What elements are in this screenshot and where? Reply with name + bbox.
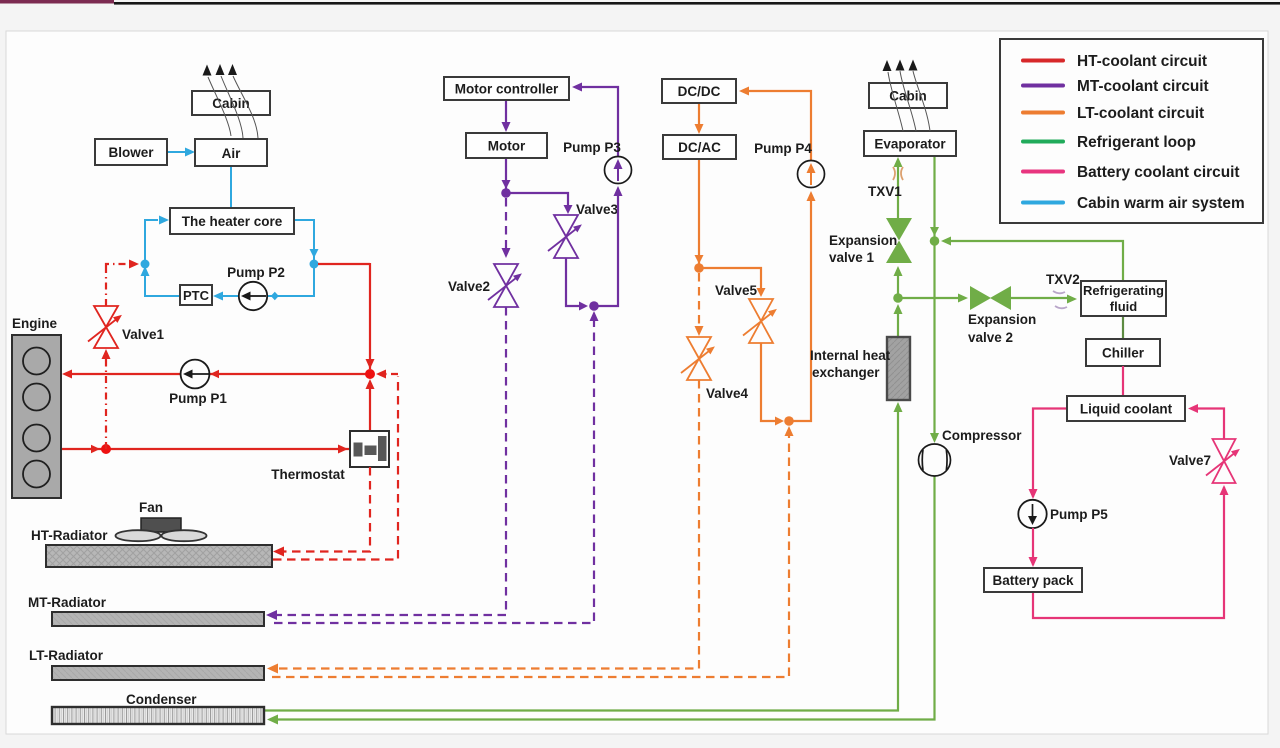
wire junction up to pump P4: [789, 191, 816, 421]
wire dashed MT radiator return to pump junction: [274, 311, 599, 623]
wire pump P2 to PTC (blue arrow): [213, 292, 240, 301]
wire refrigerating fluid to chiller: [1122, 316, 1124, 339]
svg-text:The heater core: The heater core: [182, 214, 283, 229]
thermostat: [271, 431, 389, 482]
svg-text:Liquid coolant: Liquid coolant: [1080, 402, 1173, 417]
wire motor controller to motor: [502, 100, 511, 132]
wire evaporator down to compressor junction: [930, 156, 939, 238]
svg-text:DC/DC: DC/DC: [678, 84, 721, 99]
svg-text:Expansion: Expansion: [968, 312, 1036, 327]
svg-text:Chiller: Chiller: [1102, 346, 1145, 361]
box The heater core: [170, 208, 294, 234]
node green junction at branch: [893, 293, 903, 303]
box Liquid coolant: [1067, 396, 1185, 421]
svg-text:Air: Air: [222, 146, 242, 161]
wire valve3 down to pump junction: [566, 258, 588, 311]
svg-text:Pump P4: Pump P4: [754, 141, 812, 156]
valve V3: [548, 202, 619, 258]
engine block: [12, 335, 61, 498]
TXV2 squiggles: [1053, 291, 1067, 308]
svg-text:Pump P2: Pump P2: [227, 265, 285, 280]
wire DC/DC to DC/AC: [695, 103, 704, 134]
svg-text:Pump P1: Pump P1: [169, 391, 227, 406]
node blue junction left: [141, 260, 150, 269]
wire liquid coolant to pump P5: [1029, 409, 1068, 500]
box Motor: [466, 133, 547, 158]
valve V7: [1169, 439, 1240, 483]
svg-text:Evaporator: Evaporator: [874, 137, 946, 152]
wire DC/AC down to orange junction: [695, 159, 704, 264]
wire Blower to Air (blue arrow): [167, 148, 195, 157]
wire dashed valve2 down to MT radiator: [266, 307, 506, 620]
node red junction on engine lower line: [101, 444, 111, 454]
svg-text:Valve5: Valve5: [715, 283, 758, 298]
wire junction up to pump P3: [594, 186, 623, 306]
svg-text:Valve2: Valve2: [448, 279, 490, 294]
wire refrigerating fluid return to junction: [941, 237, 1123, 282]
svg-text:Engine: Engine: [12, 316, 57, 331]
wire heater core right side down to pump P2: [267, 220, 319, 300]
svg-text:Internal heat: Internal heat: [810, 348, 891, 363]
wire valve5 down to pump P4 junction: [761, 343, 784, 426]
wire compressor to condenser: [267, 476, 935, 725]
wire battery pack to valve7: [1033, 485, 1229, 618]
pump P4: [754, 141, 824, 188]
legend Battery coolant circuit: [1021, 164, 1240, 181]
legend Cabin warm air system: [1021, 195, 1245, 212]
box Chiller: [1086, 339, 1160, 366]
top black line: [114, 2, 1280, 5]
wire dashed junction to valve4: [695, 273, 704, 336]
HT radiator: [46, 545, 272, 567]
legend HT-coolant circuit: [1021, 53, 1207, 70]
LT radiator: [52, 666, 264, 680]
svg-text:Pump P5: Pump P5: [1050, 507, 1108, 522]
box Refrigerating fluid: [1081, 281, 1166, 316]
pump P3: [563, 140, 631, 184]
node purple junction before pump P3: [589, 301, 599, 311]
warm air flow curves through right cabin: [888, 71, 930, 131]
svg-text:HT-Radiator: HT-Radiator: [31, 528, 108, 543]
valve V1: [88, 306, 165, 348]
svg-text:Compressor: Compressor: [942, 428, 1022, 443]
legend LT-coolant circuit: [1021, 105, 1204, 122]
valve V5: [715, 283, 777, 343]
box Battery pack: [984, 568, 1082, 592]
box Motor controller: [444, 77, 569, 100]
svg-text:MT-coolant circuit: MT-coolant circuit: [1077, 78, 1209, 95]
wire heater core left loop (up-flow into heater core): [141, 216, 181, 297]
wire expansion valve1 to evaporator: [894, 157, 903, 218]
expansion valve 2 (filled, horizontal): [970, 286, 1011, 310]
svg-text:exchanger: exchanger: [812, 365, 880, 380]
wire junction down to compressor: [930, 241, 939, 443]
svg-text:Valve7: Valve7: [1169, 453, 1211, 468]
svg-text:Blower: Blower: [108, 145, 154, 160]
valve V4: [681, 337, 749, 401]
wire dashed HT-radiator return to junction riser: [273, 376, 398, 560]
svg-text:TXV2: TXV2: [1046, 272, 1080, 287]
svg-text:valve 1: valve 1: [829, 250, 875, 265]
wire engine supply line y374 with arrow into engine: [62, 370, 370, 379]
node blue junction right: [310, 260, 319, 269]
wire dashed return into junction from right: [376, 370, 398, 379]
wire engine lower line y449 into thermostat: [61, 445, 350, 454]
node purple junction under motor: [501, 188, 511, 198]
node orange junction under DC/AC: [694, 263, 704, 273]
wire thermostat to junction (up arrow): [366, 379, 375, 431]
wire pump P3 to motor controller: [572, 83, 618, 158]
box Evaporator: [864, 131, 956, 156]
valve V2: [448, 264, 522, 307]
condenser: [52, 707, 264, 724]
svg-text:Refrigerating: Refrigerating: [1083, 283, 1164, 298]
wire chiller to liquid coolant: [1122, 366, 1124, 396]
svg-text:Cabin warm air system: Cabin warm air system: [1077, 195, 1245, 212]
wire condenser up through IHE: [265, 402, 903, 711]
wire junction to valve5: [699, 268, 766, 297]
svg-text:Refrigerant loop: Refrigerant loop: [1077, 134, 1196, 151]
wire dashed LT radiator return to pump junction: [272, 426, 794, 677]
legend Refrigerant loop: [1021, 134, 1196, 151]
svg-text:Expansion: Expansion: [829, 233, 897, 248]
svg-text:MT-Radiator: MT-Radiator: [28, 595, 107, 610]
pump P1: [169, 360, 227, 406]
box Air: [195, 139, 267, 166]
svg-text:fluid: fluid: [1110, 299, 1137, 314]
top maroon bar: [0, 0, 114, 4]
box Blower: [95, 139, 167, 165]
wire pump P4 to DC/DC: [739, 87, 811, 162]
svg-text:HT-coolant circuit: HT-coolant circuit: [1077, 53, 1207, 70]
pump P5: [1018, 500, 1108, 528]
svg-text:Valve1: Valve1: [122, 327, 165, 342]
box DC/AC: [663, 135, 736, 159]
node green junction above compressor: [930, 236, 940, 246]
TXV1 tick marks: [893, 167, 903, 180]
svg-text:Pump P3: Pump P3: [563, 140, 621, 155]
wire pump P5 to battery pack: [1029, 528, 1038, 567]
fan: [116, 518, 207, 541]
svg-text:Battery pack: Battery pack: [992, 573, 1074, 588]
svg-text:LT-Radiator: LT-Radiator: [29, 648, 104, 663]
wire IHE to branch junction: [894, 304, 903, 337]
svg-text:Motor: Motor: [488, 139, 526, 154]
svg-text:Thermostat: Thermostat: [271, 467, 345, 482]
wire red vertical corner down to main junction: [366, 263, 375, 369]
node orange junction before pump P4: [784, 416, 794, 426]
box DC/DC: [662, 79, 736, 103]
svg-text:Battery coolant circuit: Battery coolant circuit: [1077, 164, 1240, 181]
wire branch to expansion valve 2: [898, 294, 968, 303]
wire Air to heater core: [230, 166, 232, 208]
svg-text:Valve3: Valve3: [576, 202, 619, 217]
internal heat exchanger: [887, 337, 910, 400]
compressor: [919, 428, 1023, 476]
svg-text:DC/AC: DC/AC: [678, 140, 721, 155]
svg-text:Valve4: Valve4: [706, 386, 749, 401]
wire motor down to purple junction: [502, 158, 511, 189]
svg-text:LT-coolant circuit: LT-coolant circuit: [1077, 105, 1204, 122]
legend box: [1000, 39, 1263, 223]
svg-text:Motor controller: Motor controller: [455, 82, 559, 97]
MT radiator: [52, 612, 264, 626]
expansion valve 1 (filled): [886, 218, 912, 263]
wire dashed valve4 down to LT radiator: [267, 380, 699, 674]
wire red top horizontal from blue node to corner: [318, 263, 370, 265]
svg-text:Condenser: Condenser: [126, 692, 197, 707]
wire valve1 dash-dot branch: [102, 260, 140, 450]
wire dashed junction to valve2: [502, 198, 511, 258]
svg-text:Fan: Fan: [139, 500, 163, 515]
box Cabin (left): [192, 91, 270, 115]
box PTC: [180, 285, 212, 305]
pump P2: [227, 265, 285, 310]
wire dashed thermostat to HT-radiator: [273, 467, 370, 557]
wire green riser into expansion valve 1: [894, 266, 903, 298]
box Cabin (right): [869, 83, 947, 108]
node red main junction: [365, 369, 375, 379]
cabin exhaust arrows (right): [883, 60, 918, 72]
svg-text:TXV1: TXV1: [868, 184, 902, 199]
cabin exhaust arrows (left): [203, 64, 238, 76]
warm air flow curves through cabin (left): [208, 76, 258, 138]
wire expansion valve 2 to refrigerating fluid: [1011, 295, 1077, 304]
svg-text:valve 2: valve 2: [968, 330, 1013, 345]
legend MT-coolant circuit: [1021, 78, 1209, 95]
wire valve7 back to liquid coolant: [1188, 404, 1224, 439]
wire junction to valve3: [506, 193, 573, 214]
svg-text:PTC: PTC: [183, 288, 210, 303]
